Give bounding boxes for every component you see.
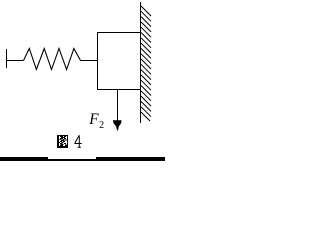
spring (zigzag coil) — [24, 49, 81, 70]
caption glyph 图 (box outline) — [57, 135, 68, 148]
bottom rule (thick) — [0, 157, 165, 161]
anchor post (left spring support) — [6, 49, 8, 68]
force arrow F2 stem — [117, 90, 119, 126]
wall hatching — [141, 6, 151, 121]
caption glyph 图 (inner strokes) — [59, 136, 67, 146]
caption digit 4 — [74, 135, 81, 147]
force arrow F2 head — [113, 120, 122, 131]
block (box against wall) — [98, 33, 141, 90]
bottom rule notch — [48, 157, 96, 159]
wire (left spring lead) — [6, 60, 24, 62]
wall line — [140, 2, 142, 123]
svg-text:2: 2 — [99, 120, 104, 131]
wire (right spring lead) — [80, 60, 98, 62]
svg-text:F: F — [88, 111, 99, 128]
